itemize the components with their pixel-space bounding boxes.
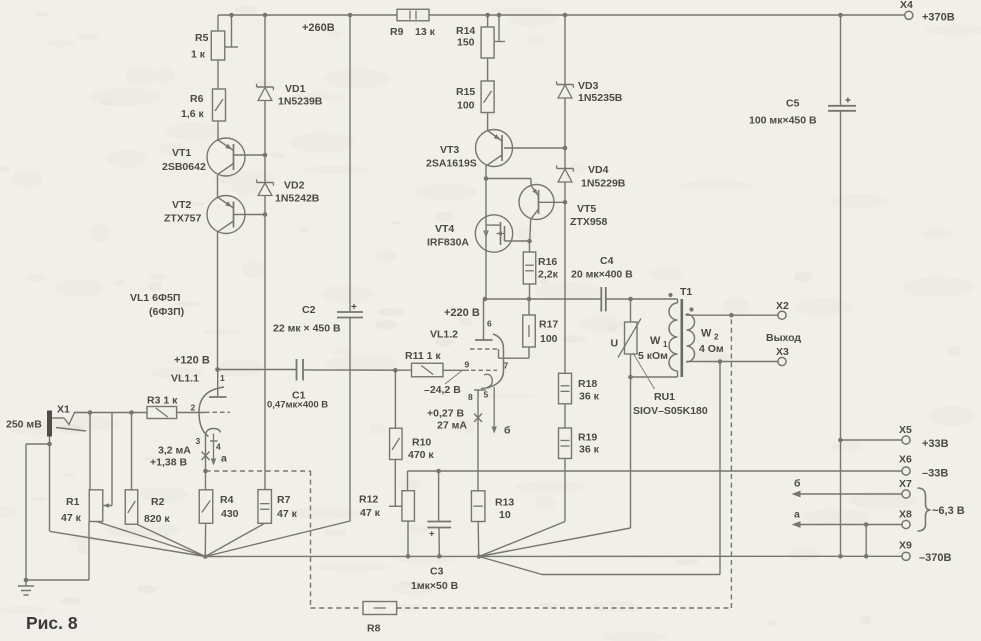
svg-text:100 мк×450 В: 100 мк×450 В: [749, 115, 817, 127]
svg-text:2,2к: 2,2к: [538, 269, 559, 281]
svg-text:3: 3: [196, 436, 201, 446]
svg-text:470 к: 470 к: [408, 449, 434, 461]
svg-text:100: 100: [540, 333, 558, 345]
svg-text:4 Ом: 4 Ом: [699, 343, 724, 355]
svg-text:~6,3 В: ~6,3 В: [932, 505, 965, 517]
svg-text:430: 430: [221, 508, 239, 520]
svg-text:W: W: [650, 335, 661, 347]
svg-text:2: 2: [714, 333, 719, 342]
svg-text:–33В: –33В: [922, 468, 948, 480]
svg-text:R8: R8: [367, 623, 381, 635]
svg-text:R2: R2: [151, 496, 165, 508]
svg-text:1,6 к: 1,6 к: [181, 108, 205, 120]
svg-text:VD3: VD3: [578, 80, 599, 92]
svg-text:5 кОм: 5 кОм: [638, 350, 668, 362]
svg-text:SIOV–S05K180: SIOV–S05K180: [633, 405, 708, 417]
svg-text:1N5242B: 1N5242B: [275, 193, 320, 205]
svg-text:36 к: 36 к: [579, 444, 600, 456]
svg-text:C4: C4: [600, 255, 614, 267]
svg-text:–24,2 В: –24,2 В: [424, 384, 461, 396]
svg-text:X4: X4: [900, 0, 913, 11]
svg-text:+: +: [845, 96, 851, 107]
svg-text:1: 1: [663, 340, 668, 349]
svg-text:250 мВ: 250 мВ: [6, 419, 42, 431]
svg-text:W: W: [701, 328, 712, 340]
svg-text:47 к: 47 к: [277, 508, 298, 520]
svg-text:VD2: VD2: [284, 180, 305, 192]
svg-text:R16: R16: [538, 256, 557, 268]
svg-text:9: 9: [465, 360, 470, 370]
svg-text:X2: X2: [776, 300, 789, 312]
svg-text:X9: X9: [899, 540, 912, 552]
svg-text:2SB0642: 2SB0642: [162, 161, 206, 173]
svg-text:X1: X1: [57, 404, 70, 416]
svg-text:1: 1: [220, 373, 225, 383]
svg-text:3,2 мА: 3,2 мА: [158, 445, 191, 457]
svg-text:RU1: RU1: [654, 391, 675, 403]
svg-text:R1: R1: [66, 496, 80, 508]
svg-text:27 мА: 27 мА: [437, 420, 467, 432]
svg-text:Выход: Выход: [766, 332, 801, 344]
svg-text:1N5235B: 1N5235B: [578, 92, 623, 104]
svg-text:R14: R14: [456, 25, 475, 37]
svg-text:VT5: VT5: [577, 203, 596, 215]
svg-text:VT1: VT1: [172, 147, 191, 159]
svg-text:б: б: [794, 478, 801, 490]
svg-text:+220 В: +220 В: [444, 307, 480, 319]
svg-text:R10: R10: [412, 437, 431, 449]
svg-text:1N5229B: 1N5229B: [581, 178, 626, 190]
svg-text:VT2: VT2: [172, 199, 191, 211]
svg-text:VD4: VD4: [588, 164, 609, 176]
svg-text:+120 В: +120 В: [174, 355, 210, 367]
svg-text:150: 150: [457, 37, 475, 49]
svg-text:47 к: 47 к: [360, 507, 381, 519]
svg-text:+370В: +370В: [922, 12, 955, 24]
svg-text:6: 6: [487, 319, 492, 329]
svg-text:+: +: [351, 302, 357, 313]
svg-text:C5: C5: [786, 98, 800, 110]
svg-text:а: а: [221, 453, 227, 465]
svg-text:R15: R15: [456, 86, 475, 98]
svg-text:X5: X5: [899, 424, 912, 436]
svg-text:X3: X3: [776, 346, 789, 358]
svg-text:47 к: 47 к: [61, 512, 82, 524]
svg-text:+0,27 В: +0,27 В: [427, 408, 464, 420]
svg-text:1 к: 1 к: [191, 49, 206, 61]
svg-text:1мк×50 В: 1мк×50 В: [411, 580, 459, 592]
svg-text:10: 10: [499, 509, 511, 521]
svg-text:(6Ф3П): (6Ф3П): [149, 306, 184, 318]
svg-text:820 к: 820 к: [144, 513, 170, 525]
svg-text:13 к: 13 к: [415, 26, 436, 38]
svg-text:5: 5: [484, 390, 489, 400]
svg-text:VL1.1: VL1.1: [171, 373, 199, 385]
svg-text:X6: X6: [899, 454, 912, 466]
svg-text:U: U: [611, 338, 619, 350]
svg-text:VL1 6Ф5П: VL1 6Ф5П: [130, 292, 180, 304]
svg-text:R12: R12: [359, 494, 378, 506]
svg-text:2SA1619S: 2SA1619S: [426, 158, 477, 170]
svg-text:20 мк×400 В: 20 мк×400 В: [571, 269, 633, 281]
svg-text:R6: R6: [190, 93, 204, 105]
svg-text:C3: C3: [430, 566, 444, 578]
svg-text:7: 7: [504, 361, 509, 371]
svg-text:VD1: VD1: [285, 83, 306, 95]
svg-text:VT4: VT4: [435, 223, 454, 235]
svg-text:VT3: VT3: [440, 144, 459, 156]
svg-text:VL1.2: VL1.2: [430, 329, 458, 341]
svg-text:ZTX958: ZTX958: [570, 216, 608, 228]
svg-text:22 мк × 450 В: 22 мк × 450 В: [273, 323, 341, 335]
svg-text:0,47мк×400 В: 0,47мк×400 В: [267, 400, 328, 411]
svg-text:+: +: [429, 529, 435, 540]
svg-text:R19: R19: [578, 432, 597, 444]
svg-text:X8: X8: [899, 509, 912, 521]
svg-text:а: а: [794, 509, 800, 521]
svg-text:C2: C2: [302, 304, 316, 316]
svg-text:R18: R18: [578, 378, 597, 390]
svg-text:ZTX757: ZTX757: [164, 213, 202, 225]
svg-text:R7: R7: [277, 494, 291, 506]
svg-text:–370В: –370В: [919, 552, 951, 564]
svg-text:2: 2: [191, 403, 196, 413]
svg-text:б: б: [504, 425, 511, 437]
svg-text:+1,38 В: +1,38 В: [150, 457, 187, 469]
svg-text:1N5239B: 1N5239B: [278, 96, 323, 108]
svg-text:36 к: 36 к: [579, 391, 600, 403]
svg-text:R13: R13: [495, 497, 514, 509]
svg-text:8: 8: [468, 392, 473, 402]
svg-text:100: 100: [457, 100, 475, 112]
svg-text:R17: R17: [539, 319, 558, 331]
svg-text:R9: R9: [390, 26, 404, 38]
svg-text:R5: R5: [195, 32, 209, 44]
svg-text:IRF830A: IRF830A: [427, 237, 469, 249]
svg-text:T1: T1: [680, 286, 692, 298]
svg-text:X7: X7: [899, 478, 912, 490]
svg-text:Рис. 8: Рис. 8: [26, 613, 78, 633]
svg-text:R11 1 к: R11 1 к: [405, 350, 441, 362]
svg-text:+260В: +260В: [302, 22, 335, 34]
svg-text:+33В: +33В: [922, 438, 949, 450]
svg-text:R4: R4: [220, 494, 234, 506]
svg-text:R3 1 к: R3 1 к: [147, 395, 178, 407]
svg-text:4: 4: [216, 442, 221, 452]
